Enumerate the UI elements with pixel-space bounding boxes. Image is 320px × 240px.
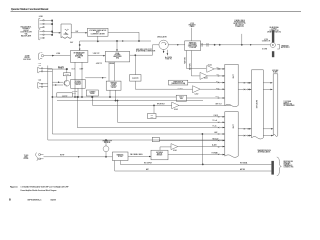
label 5V <box>216 96 219 98</box>
wire label stub into filter box <box>190 28 192 41</box>
pin marks on bus wires <box>218 116 219 155</box>
IPA bias lines <box>74 62 82 97</box>
label RF DETECT <box>157 103 165 105</box>
temp power control box <box>106 81 121 90</box>
wire circulator to harmonic filter <box>168 44 184 46</box>
label motherboard <box>272 70 278 73</box>
interconnect wires backplane to motherboard <box>263 82 272 90</box>
rf detector box <box>130 75 141 82</box>
label U3 <box>195 94 199 96</box>
x mark temp wire <box>218 82 219 83</box>
label circulator <box>157 36 168 39</box>
label U4 <box>174 109 178 111</box>
label 1.2W TYP <box>76 31 79 33</box>
label rx signal right <box>240 161 248 164</box>
rx output rail <box>120 161 271 166</box>
boxed label all ctrl on rail <box>57 93 73 98</box>
power control box <box>71 79 86 88</box>
antenna switch box <box>151 150 168 160</box>
PA module inner boundary <box>52 69 224 134</box>
label J-1705 connector <box>262 39 270 42</box>
label RF DET out <box>216 87 219 89</box>
label to antenna switch <box>233 19 245 28</box>
op-amp U3 temp <box>193 86 225 93</box>
wire filter to antenna connector <box>201 34 271 47</box>
rx antenna connector <box>36 153 113 161</box>
bus wire AUX / control board boundary <box>202 131 225 164</box>
label rx output <box>144 162 152 164</box>
label RF drive level <box>56 53 60 55</box>
label block transmit cable <box>188 23 195 28</box>
label det out <box>216 103 222 105</box>
bus wire L MOD <box>153 105 224 118</box>
interconnect lower wires interface-backplane <box>238 128 251 136</box>
control rail 1 <box>52 96 177 97</box>
label ant rf right <box>240 168 245 171</box>
label receiver rf input <box>284 161 294 169</box>
label TX RF from exciter <box>23 55 31 61</box>
wire regulator output down to A+ rail <box>97 32 139 42</box>
circulator <box>159 40 168 53</box>
label rf power amplifier output <box>267 26 281 33</box>
harmonic filter box 2 <box>112 152 128 161</box>
label A+ from fuse <box>165 56 172 61</box>
label forward <box>208 64 212 66</box>
ctrl wire with square <box>48 68 68 80</box>
svg-text:Figure 3.: Figure 3. <box>10 187 18 189</box>
labels PA bias <box>96 63 102 65</box>
interconnect lower wires backplane-motherboard <box>263 128 273 136</box>
wire IPA to PA <box>88 55 105 57</box>
op-amp U2 reverse power <box>200 72 225 79</box>
label TEMP <box>216 81 219 83</box>
header rule <box>11 10 302 12</box>
rf detector tap from output line <box>135 55 136 90</box>
svg-text:J-100: J-100 <box>39 16 43 18</box>
brace <box>277 157 282 176</box>
arrows into transistor <box>52 81 63 85</box>
coax connector circle <box>270 43 275 48</box>
low batt box <box>176 95 186 101</box>
rf detect buffer wire <box>92 96 172 105</box>
label transmit/receive antenna <box>257 149 271 153</box>
PA module outer boundary <box>48 66 225 141</box>
label 50 ohm <box>262 48 267 50</box>
motherboard block (narrow) <box>273 74 278 137</box>
connector J1 (control lines from backplane) <box>39 19 44 40</box>
transistor Q1 <box>64 80 70 86</box>
label rx rf <box>24 155 29 160</box>
current sense box to rail <box>91 96 93 97</box>
voltage regulator box <box>87 28 108 36</box>
label A+ on rail <box>70 42 73 44</box>
label 40W min output <box>136 49 156 53</box>
label to control board <box>284 101 295 107</box>
connector J-103 label <box>38 79 42 82</box>
label rev sense (vertical) <box>190 64 192 71</box>
wire low batt to interface <box>187 97 225 99</box>
harmonic filter / directional coupler box <box>185 41 201 51</box>
coax input connector J2 <box>39 54 71 60</box>
reverse power sense line <box>191 51 199 76</box>
current sense box <box>86 90 98 96</box>
op-amp U1 forward power <box>207 66 225 73</box>
label: control signals from controller <box>20 25 32 37</box>
antenna connector bar lower <box>272 51 274 57</box>
label on rx wire <box>60 154 64 156</box>
power control box to rail <box>77 88 78 97</box>
buffer amp rx <box>160 144 225 151</box>
op-amp U4 buffer <box>172 102 231 109</box>
label ant <box>146 168 149 171</box>
header title text <box>11 8 49 11</box>
PA box <box>105 51 129 62</box>
wires connector J1 to exciter box <box>44 20 60 36</box>
label pwr set <box>72 91 78 94</box>
bus wire TX+A <box>117 100 225 123</box>
backplane connector block <box>252 70 264 139</box>
ant rail <box>115 161 272 172</box>
PA interface connector lower block <box>225 112 238 158</box>
PA interface connector upper block J-1700 <box>225 64 238 106</box>
x mark 5v wire <box>218 97 219 98</box>
label REV PWR out <box>217 74 220 76</box>
label transmit rf <box>102 140 111 144</box>
wire temp sensor to interface <box>188 82 225 84</box>
footer part number <box>28 199 43 201</box>
label 4.5W TYP <box>93 53 100 55</box>
wire into temp control box <box>85 77 106 79</box>
small box wire1 <box>148 114 157 119</box>
label reverse <box>204 78 208 80</box>
wire PA output to circulator <box>130 45 159 55</box>
bus wire TX-A <box>77 96 225 128</box>
labels IPA bias <box>72 68 76 70</box>
wire exciter to regulator <box>71 32 87 34</box>
connector J-102 <box>38 67 53 73</box>
label fwd sense (vertical) <box>185 57 187 64</box>
page number <box>9 198 11 202</box>
A+ rail <box>79 40 151 51</box>
control rail 2 <box>57 100 203 101</box>
svg-text:68P81096E05-C: 68P81096E05-C <box>28 199 43 201</box>
label amp U5 <box>173 150 177 152</box>
rx connector bar 1 <box>271 161 274 168</box>
connector J1 label <box>39 16 43 18</box>
label transmit RF output <box>277 44 279 49</box>
connector J-102 label <box>38 63 42 66</box>
label pa temp in <box>178 86 183 89</box>
footer date <box>51 199 56 201</box>
label rx inj <box>212 144 217 147</box>
antenna connector bar <box>272 30 274 42</box>
interconnect wires upper (interface to backplane) <box>238 82 251 90</box>
PA bias lines <box>109 62 116 101</box>
connector J-103 <box>38 83 48 89</box>
figure caption <box>10 186 68 192</box>
svg-text:6/4/98: 6/4/98 <box>51 199 56 201</box>
A+ fuse stub <box>167 50 169 56</box>
temp sensor box <box>169 80 188 85</box>
x mark wire2 <box>218 75 219 76</box>
label via coax <box>130 153 143 156</box>
exciter box (torn bottom) <box>61 24 71 39</box>
bus wire TX ENAB <box>168 152 225 156</box>
label J-104 <box>40 51 43 53</box>
IPA box <box>70 51 88 63</box>
label all ctrl signals <box>58 65 64 69</box>
forward power sense line <box>186 51 206 69</box>
wire filter2 to antenna switch <box>128 156 151 158</box>
x mark det wire <box>218 89 219 90</box>
rf detect feed wire <box>135 88 192 90</box>
rx connector bar 2 <box>271 168 274 175</box>
transmit rf drop to antenna switch <box>103 139 109 157</box>
label Q100 <box>63 73 70 76</box>
bus wire HI PWR with box <box>152 137 224 141</box>
label FWD PWR out <box>217 67 220 69</box>
